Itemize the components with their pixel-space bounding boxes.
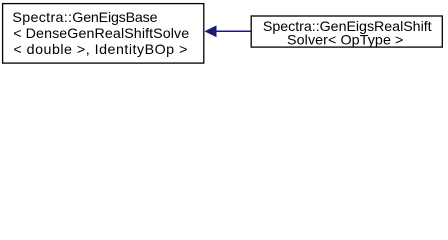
class box Spectra::GenEigsRealShiftSolver (derived class node) [251, 16, 442, 49]
svg-text:< DenseGenRealShiftSolve: < DenseGenRealShiftSolve [13, 26, 189, 42]
svg-text:< double >, IdentityBOp >: < double >, IdentityBOp > [13, 42, 187, 58]
class box Spectra::GenEigsBase (base class node) [3, 4, 204, 64]
svg-text:Spectra::GenEigsBase: Spectra::GenEigsBase [12, 10, 157, 26]
svg-text:Solver< OpType >: Solver< OpType > [287, 33, 403, 49]
arrowhead [206, 26, 217, 36]
inheritance arrow (derived -> base) [206, 26, 252, 36]
wire shaft [216, 30, 252, 32]
